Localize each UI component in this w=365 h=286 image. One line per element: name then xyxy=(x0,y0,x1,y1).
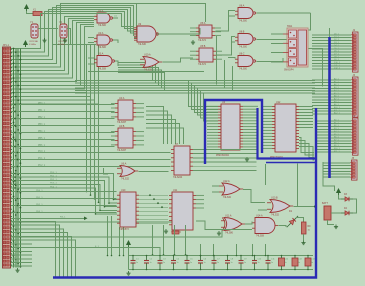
ground cap rail xyxy=(126,271,130,275)
junction cap top xyxy=(159,255,161,257)
bus blue vertical right column xyxy=(328,37,331,178)
wire drop 2 xyxy=(174,225,176,255)
svg-text:PD3_1: PD3_1 xyxy=(50,183,57,185)
wire U12 bottom-right staircase xyxy=(299,137,314,152)
junction row xyxy=(14,173,16,175)
wire vert t3 xyxy=(232,66,234,91)
junction cap bottom xyxy=(267,269,269,271)
junction cap bottom xyxy=(186,269,188,271)
svg-text:PD2_1: PD2_1 xyxy=(50,179,57,181)
junction rail xyxy=(163,254,165,256)
svg-text:1u: 1u xyxy=(204,262,206,264)
wire cap rail bottom xyxy=(129,269,314,271)
svg-text:U8:A: U8:A xyxy=(239,5,245,8)
wire U6A in loop xyxy=(104,168,109,174)
ground U6 xyxy=(245,157,249,161)
gate U8:B xyxy=(235,34,256,45)
wire drop gate xyxy=(213,244,215,256)
svg-text:1u: 1u xyxy=(244,262,246,264)
wire PD4 z-bend xyxy=(11,188,117,214)
junction cap top xyxy=(186,255,188,257)
wire J3-12 xyxy=(312,113,351,115)
wire J3-2 xyxy=(312,85,351,87)
junction row xyxy=(17,198,19,200)
wire J4-10 xyxy=(316,148,351,150)
wire U2 out xyxy=(113,40,118,43)
junction row xyxy=(14,104,16,106)
wire U10-U11 interconnect xyxy=(139,194,168,196)
wire J3-3 xyxy=(312,87,351,89)
wire J3-4 xyxy=(312,90,351,92)
wire U4-U7 stair4 xyxy=(146,124,180,144)
wire U2 in1 xyxy=(88,37,94,39)
svg-text:1u: 1u xyxy=(217,262,219,264)
wire J3-10 xyxy=(312,107,351,109)
wire bus B2-down1 xyxy=(90,96,92,195)
connector J3 xyxy=(351,77,358,117)
junction cap bottom xyxy=(294,269,296,271)
crystal X1 xyxy=(33,12,42,16)
wire PD0 z-bend xyxy=(11,174,117,200)
wire J3-5 xyxy=(312,93,351,95)
junction row xyxy=(17,191,19,193)
wire header bus 3 xyxy=(19,49,21,268)
junction cap bottom xyxy=(132,269,134,271)
junction row xyxy=(14,176,16,178)
junction row xyxy=(17,152,19,154)
svg-text:B10_1: B10_1 xyxy=(334,148,341,150)
svg-text:PC2_1: PC2_1 xyxy=(38,165,46,167)
IC U5:B flip-flop xyxy=(190,48,222,62)
junction U10-U11 xyxy=(153,198,155,200)
wire bus B4 xyxy=(11,25,94,86)
wire bus C-join3 xyxy=(118,70,162,88)
wire J4-4 xyxy=(316,131,351,133)
wire J5-4 xyxy=(323,173,350,175)
junction row xyxy=(14,187,16,189)
wire bus B2-down3 xyxy=(98,104,100,203)
wire long row 1 xyxy=(11,217,84,219)
svg-text:PD4_1: PD4_1 xyxy=(50,186,57,188)
svg-text:U12:A: U12:A xyxy=(223,180,230,183)
ground U5 xyxy=(191,40,195,44)
connector J5 xyxy=(350,160,357,180)
junction cap bottom xyxy=(240,269,242,271)
ground U11A xyxy=(217,231,221,235)
IC U11 driver xyxy=(169,192,204,230)
junction rail left xyxy=(107,255,109,257)
junction B2 xyxy=(94,198,96,200)
wire vert blue to U13 xyxy=(297,164,299,207)
wire J4-5 xyxy=(316,134,351,136)
wire U6A out xyxy=(139,171,169,173)
wire bus A3 xyxy=(11,8,134,60)
junction cap bottom xyxy=(254,269,256,271)
svg-text:1u: 1u xyxy=(177,262,179,264)
svg-text:74LS157: 74LS157 xyxy=(117,122,127,124)
svg-text:BATT: BATT xyxy=(322,202,328,205)
diode D1 (diagonal) xyxy=(285,214,300,229)
wire J3-8 xyxy=(312,102,351,104)
wire J5-0 xyxy=(323,162,350,164)
svg-text:1u: 1u xyxy=(136,262,138,264)
wire U12 right pins top xyxy=(299,105,313,107)
IC U10 latch xyxy=(117,192,139,227)
wire bus C1 xyxy=(75,82,315,84)
capacitor C2 xyxy=(144,256,149,270)
ground Y1 xyxy=(42,38,46,42)
svg-text:U4:A: U4:A xyxy=(119,97,125,100)
IC U6 latch xyxy=(207,104,258,150)
svg-text:PB0_1: PB0_1 xyxy=(38,103,46,105)
wire J2-3 xyxy=(312,42,351,44)
wire drop 1 xyxy=(163,225,165,255)
wire U8:C out xyxy=(257,58,284,62)
svg-text:74LS74: 74LS74 xyxy=(198,40,207,42)
wire long row 2 xyxy=(11,230,222,238)
wire J4-0 xyxy=(316,120,351,122)
wire J2-6 xyxy=(312,51,351,53)
wire drop-left0 xyxy=(107,216,109,256)
wire SW in0 xyxy=(271,33,283,35)
bus blue second horizontal xyxy=(266,162,316,164)
svg-text:U1:A: U1:A xyxy=(98,10,104,13)
wire PE1 xyxy=(11,198,117,200)
svg-text:CRYSTAL: CRYSTAL xyxy=(29,40,39,43)
wire J4-2 xyxy=(316,126,351,128)
svg-text:U8:C: U8:C xyxy=(239,53,245,56)
junction U10-U11 xyxy=(161,206,163,208)
svg-text:74LS30: 74LS30 xyxy=(138,44,147,46)
bus blue bottom rail and right vertical xyxy=(53,108,316,278)
capacitor C12 xyxy=(279,256,285,270)
svg-text:U3:A: U3:A xyxy=(98,53,104,56)
svg-text:U10:A: U10:A xyxy=(144,54,151,57)
wire PB6 xyxy=(11,146,115,148)
bus blue inner U xyxy=(258,108,316,159)
wire to X1 xyxy=(27,11,34,14)
wire to bus 2 xyxy=(11,229,64,277)
svg-text:1u: 1u xyxy=(150,262,152,264)
wire drop-left3 xyxy=(123,227,125,256)
junction row xyxy=(14,180,16,182)
wire drop 3 xyxy=(185,225,187,255)
junction dots bundle xyxy=(13,48,22,268)
svg-text:74LS00: 74LS00 xyxy=(239,47,248,49)
wire bus B2-down2 xyxy=(94,100,96,199)
power BT xyxy=(337,189,341,195)
wire top long to U5A xyxy=(135,4,206,23)
svg-text:PE3_1: PE3_1 xyxy=(36,211,43,213)
wire J2-2 xyxy=(312,40,351,42)
wire C-drop3 xyxy=(198,88,219,115)
junction cap bottom xyxy=(281,269,283,271)
junction cap top xyxy=(281,255,283,257)
gate U6:A OR xyxy=(117,166,138,177)
wire long row 1b xyxy=(11,221,180,223)
ground R9 xyxy=(301,241,305,245)
wire J2-10 xyxy=(312,62,351,64)
junction cap bottom xyxy=(227,269,229,271)
junction cap top xyxy=(254,255,256,257)
wire PB3 xyxy=(11,125,115,127)
wire bus C4 xyxy=(75,90,315,92)
junction row xyxy=(14,118,16,120)
junction rail xyxy=(185,254,187,256)
svg-text:PE1_1: PE1_1 xyxy=(36,197,43,199)
svg-text:74LS32: 74LS32 xyxy=(271,215,280,217)
wire U4-U7 stair3 xyxy=(146,119,176,144)
IC U12 latch xyxy=(262,104,299,152)
wire U8C in xyxy=(228,58,235,59)
junction cap top xyxy=(294,255,296,257)
wire C-drop4 xyxy=(201,91,219,119)
wire bus A0 xyxy=(11,14,134,49)
wire to bus 4 xyxy=(11,236,72,276)
gate U12:A OR xyxy=(219,183,243,195)
gate U3:A xyxy=(94,56,115,67)
wire U3 out xyxy=(115,61,118,66)
wire J3-7 xyxy=(312,99,351,101)
svg-text:A10_1: A10_1 xyxy=(334,106,341,109)
svg-text:74LS00: 74LS00 xyxy=(239,21,248,23)
wire J2-12 xyxy=(312,68,351,70)
svg-text:U5:B: U5:B xyxy=(200,45,206,48)
wire U4-U7 stair0 xyxy=(146,107,164,145)
wire long row 3 xyxy=(11,248,160,256)
svg-text:1u: 1u xyxy=(231,262,233,264)
wire U7 to bus xyxy=(193,148,257,150)
wire U9 out xyxy=(157,28,201,34)
svg-text:A12_1: A12_1 xyxy=(334,112,341,115)
gate U8:A xyxy=(235,8,256,19)
wire bus B2-2 xyxy=(11,45,95,101)
wire XOR to AND xyxy=(245,222,252,225)
wire BT gnd xyxy=(328,220,335,225)
svg-text:1u: 1u xyxy=(258,262,260,264)
wire PC2 xyxy=(11,166,171,168)
wire U1 out xyxy=(113,17,118,19)
svg-text:U12: U12 xyxy=(276,101,281,104)
junction cap bottom xyxy=(173,269,175,271)
wire bus B5 xyxy=(11,27,94,90)
wire U12A in1 xyxy=(212,185,219,187)
ground BT xyxy=(334,225,338,229)
connector J2 xyxy=(351,32,358,72)
wire PE2 xyxy=(11,205,117,207)
junction cap bottom xyxy=(307,269,309,271)
svg-text:PD1_1: PD1_1 xyxy=(50,176,57,178)
wire U13 out xyxy=(294,206,316,208)
wire bus B0 xyxy=(11,17,94,71)
svg-text:SW1: SW1 xyxy=(287,25,293,28)
junction z xyxy=(113,199,115,201)
wire J2-7 xyxy=(312,54,351,56)
wire J5 feed xyxy=(323,162,335,191)
wire bus C5 xyxy=(75,92,315,94)
wire Y1 out xyxy=(38,28,58,30)
junction row xyxy=(17,166,19,168)
wire J4-9 xyxy=(316,145,351,147)
junction z xyxy=(99,210,101,212)
svg-text:PB4_1: PB4_1 xyxy=(38,131,46,133)
svg-text:74LS86: 74LS86 xyxy=(225,233,234,235)
junction rail xyxy=(174,254,176,256)
wire drop gate xyxy=(265,244,267,256)
junction U13-bus xyxy=(314,205,316,207)
wire to bus 1 xyxy=(11,225,60,276)
wire Y2 out xyxy=(67,29,71,45)
junction row xyxy=(14,146,16,148)
wire bus B1 xyxy=(11,19,94,75)
wire header bus 1 xyxy=(15,49,17,268)
svg-text:SW-DIP4: SW-DIP4 xyxy=(284,70,294,72)
wire PB4 xyxy=(11,132,115,134)
wire bus C3 xyxy=(75,87,315,89)
wire J5-5 xyxy=(323,176,350,178)
svg-text:74LS157: 74LS157 xyxy=(117,150,127,152)
wire bus A2 xyxy=(11,10,134,56)
svg-text:U8:B: U8:B xyxy=(239,31,245,34)
svg-text:74LS32: 74LS32 xyxy=(223,197,232,199)
svg-text:B11_1: B11_1 xyxy=(334,151,341,153)
capacitor C14 xyxy=(305,256,311,270)
wire vert t4 xyxy=(265,164,267,185)
svg-text:74LS244: 74LS244 xyxy=(173,177,183,179)
junction z xyxy=(104,206,106,208)
connector J4 xyxy=(351,118,358,155)
junction cap top xyxy=(146,255,148,257)
svg-text:A11_1: A11_1 xyxy=(334,109,341,112)
svg-text:74LS00: 74LS00 xyxy=(98,25,107,27)
junction row xyxy=(14,132,16,134)
junction z xyxy=(108,202,110,204)
svg-text:PB3_1: PB3_1 xyxy=(38,124,46,126)
wire J4-8 xyxy=(316,143,351,145)
wire bus C-join2 xyxy=(118,68,159,86)
svg-text:1u: 1u xyxy=(271,262,273,264)
svg-text:U2:A: U2:A xyxy=(98,32,104,35)
svg-text:PE0_1: PE0_1 xyxy=(36,190,43,192)
wire bus B3 xyxy=(11,23,94,82)
svg-text:P89C51RD2: P89C51RD2 xyxy=(216,155,230,157)
wire drop gate xyxy=(236,244,238,256)
wire stub 6 xyxy=(11,265,32,267)
junction cap top xyxy=(173,255,175,257)
wire bus y45 xyxy=(52,44,96,46)
junction rail left xyxy=(119,255,121,257)
junction cap top xyxy=(307,255,309,257)
ground U11 xyxy=(164,229,168,233)
wire U13 in2 xyxy=(258,209,267,211)
connector J1 60-pin xyxy=(3,47,13,268)
svg-text:3.5MHz: 3.5MHz xyxy=(58,44,65,46)
capacitor C7 xyxy=(212,256,217,270)
wire top run a xyxy=(49,13,122,15)
wire vert t2 xyxy=(224,60,226,89)
wire U8A in2 xyxy=(229,15,236,17)
svg-text:U11: U11 xyxy=(173,189,178,192)
capacitor C1 xyxy=(131,256,136,270)
IC U7 buffer xyxy=(171,146,193,175)
wire bus A5 xyxy=(11,4,137,68)
wire bus B2-1 xyxy=(11,45,91,97)
wire PD2 z-bend xyxy=(11,181,117,207)
wire bus B2-0 xyxy=(11,45,87,93)
wire AND to D1 xyxy=(279,226,287,228)
wire drop-left2 xyxy=(119,227,121,256)
wire drop 0 xyxy=(152,225,154,255)
wire cap rail feed xyxy=(128,247,130,270)
svg-text:PC1_1: PC1_1 xyxy=(38,158,46,160)
wire J3-6 xyxy=(312,96,351,98)
wire vert t1 xyxy=(216,36,218,85)
wire SW in1 xyxy=(271,42,283,44)
junction cap bottom xyxy=(159,269,161,271)
wire to bus 5 xyxy=(11,240,76,277)
svg-text:D10_1: D10_1 xyxy=(334,62,341,64)
wire J5-2 xyxy=(323,168,350,170)
wire SW in2 xyxy=(271,52,283,54)
wire to bus 3 xyxy=(11,233,68,277)
wire J5-1 xyxy=(323,165,350,167)
junction cap bottom xyxy=(146,269,148,271)
capacitor C6 xyxy=(198,256,203,270)
svg-text:U5:A: U5:A xyxy=(200,22,206,25)
junction row xyxy=(17,205,19,207)
wire PB5 xyxy=(11,139,115,141)
gate U13:B OR xyxy=(267,200,293,213)
wire U8B in2b xyxy=(232,41,236,43)
wire U4-U7 stair5 xyxy=(146,128,184,144)
svg-text:PB2_1: PB2_1 xyxy=(38,117,46,119)
power cap rail xyxy=(127,241,131,247)
capacitor C11 xyxy=(266,256,271,270)
svg-text:U4:B: U4:B xyxy=(119,125,125,128)
svg-text:3.5MHz: 3.5MHz xyxy=(29,44,36,46)
wire bus A1 xyxy=(11,12,134,53)
wire J4-7 xyxy=(316,140,351,142)
junction row xyxy=(14,111,16,113)
junction U10-U11 xyxy=(157,202,159,204)
wire X1 out xyxy=(42,13,49,15)
junction z xyxy=(95,213,97,215)
capacitor C13 xyxy=(292,256,298,270)
capacitor C8 xyxy=(225,256,230,270)
junction row xyxy=(14,139,16,141)
junction rail left xyxy=(111,255,113,257)
IC U4:A xyxy=(111,100,144,120)
wire J5-3 xyxy=(323,170,350,172)
capacitor C3 xyxy=(158,256,163,270)
svg-text:U10: U10 xyxy=(121,189,126,192)
svg-text:74LS32: 74LS32 xyxy=(121,179,130,181)
wire J2-1 xyxy=(312,37,351,39)
diode D3 xyxy=(341,197,353,201)
wire J4-1 xyxy=(316,123,351,125)
junction cap top xyxy=(267,255,269,257)
svg-text:74LS74: 74LS74 xyxy=(198,64,207,66)
svg-text:U14:A: U14:A xyxy=(256,215,263,218)
wire PE0 xyxy=(11,191,117,193)
svg-text:PB5_1: PB5_1 xyxy=(38,138,46,140)
IC U4:B xyxy=(111,128,144,148)
wire PB2 xyxy=(11,118,115,120)
junction row xyxy=(14,125,16,127)
bus blue box around U6 xyxy=(205,100,262,164)
wire header power stub xyxy=(25,43,27,47)
gate U9 8-input NAND xyxy=(134,26,159,42)
